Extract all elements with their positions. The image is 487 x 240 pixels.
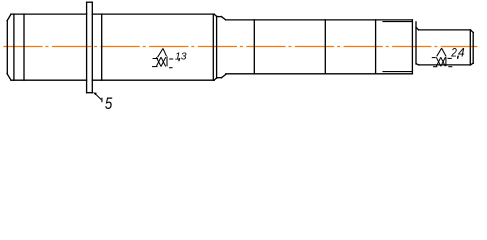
svg-text:5: 5 bbox=[105, 94, 113, 111]
svg-text:3: 3 bbox=[181, 51, 187, 62]
svg-text:2: 2 bbox=[450, 46, 457, 60]
svg-text:4: 4 bbox=[458, 46, 465, 60]
